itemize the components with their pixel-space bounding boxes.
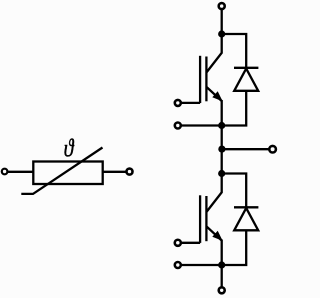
svg-text:ϑ: ϑ xyxy=(64,135,75,163)
